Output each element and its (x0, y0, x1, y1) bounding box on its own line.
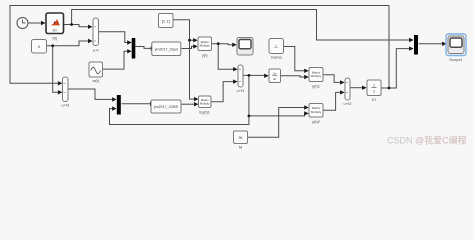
svg-text:Multiply: Multiply (311, 110, 322, 114)
svg-text:Scope1: Scope1 (449, 57, 463, 62)
svg-text:Multiply: Multiply (311, 74, 322, 78)
svg-text:y(t)2: y(t)2 (312, 119, 321, 124)
svg-text:[1 1]: [1 1] (162, 18, 170, 23)
svg-text:90: 90 (239, 136, 243, 140)
svg-text:Multiply: Multiply (200, 44, 211, 48)
svg-text:y(t)1: y(t)1 (312, 83, 321, 88)
svg-text:f(t): f(t) (52, 36, 58, 41)
svg-text:M: M (239, 145, 242, 150)
svg-text:s: s (373, 90, 375, 94)
svg-text:-C-: -C- (274, 45, 280, 49)
svg-text:fcn: fcn (53, 28, 57, 32)
svg-text:y(t): y(t) (202, 53, 208, 58)
svg-text:Ey(t)1: Ey(t)1 (199, 110, 210, 115)
svg-text:Multiply: Multiply (200, 102, 210, 106)
svg-text:u+f3: u+f3 (61, 103, 70, 108)
svg-text:u+f: u+f (93, 48, 100, 53)
svg-text:ym2017_2OBS: ym2017_2OBS (154, 105, 179, 109)
svg-text:CSDN @我爱C编程: CSDN @我爱C编程 (387, 135, 467, 146)
svg-text:Δe: Δe (273, 72, 277, 76)
svg-text:ym2017_2syst: ym2017_2syst (155, 47, 178, 51)
svg-text:w(t): w(t) (92, 78, 99, 83)
svg-text:Δt: Δt (273, 77, 276, 81)
svg-text:u+f1: u+f1 (237, 88, 246, 93)
svg-text:EI: EI (372, 97, 376, 102)
svg-text:1: 1 (373, 83, 375, 87)
svg-text:Gama: Gama (271, 54, 283, 59)
svg-text:u+f2: u+f2 (344, 101, 353, 106)
